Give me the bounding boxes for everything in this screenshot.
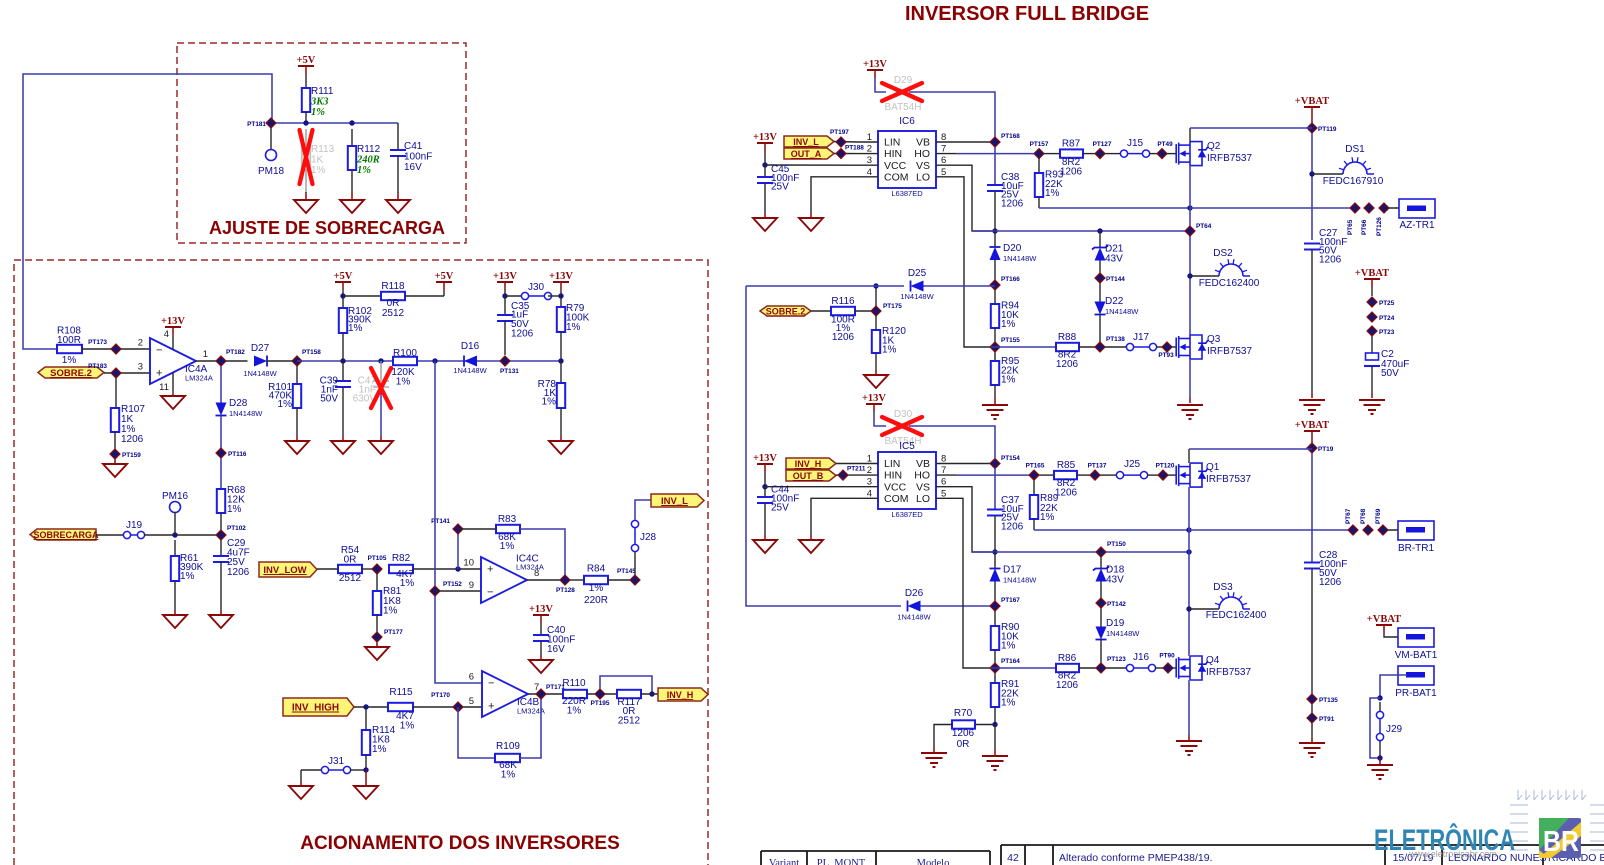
- svg-text:PT164: PT164: [1001, 658, 1020, 665]
- resistor R61: [174, 540, 176, 556]
- svg-text:R83: R83: [498, 514, 517, 525]
- svg-text:+13V: +13V: [549, 271, 573, 282]
- svg-text:D30: D30: [894, 409, 913, 420]
- test point PT152: [430, 586, 440, 596]
- junction dot J29 top: [1377, 695, 1382, 700]
- svg-text:R113: R113: [311, 144, 335, 155]
- wire HO to PT165: [956, 474, 1034, 476]
- svg-text:−: −: [156, 345, 162, 357]
- svg-text:R70: R70: [954, 708, 973, 719]
- svg-text:INV_H: INV_H: [667, 690, 694, 700]
- test point PT144: [1095, 273, 1105, 283]
- junction dot R79/R78: [558, 358, 563, 363]
- svg-text:1206: 1206: [832, 332, 855, 343]
- junction dot R112 node: [349, 120, 354, 125]
- svg-text:PT170: PT170: [431, 692, 450, 699]
- ground below R120: [864, 375, 888, 388]
- wire VB to PT154: [956, 463, 995, 465]
- test point PT154: [990, 459, 1000, 469]
- svg-text:D20: D20: [1003, 243, 1022, 254]
- wire LO down: [956, 498, 991, 668]
- wire +5V to R111: [305, 74, 307, 88]
- svg-text:R84: R84: [587, 564, 606, 575]
- connector BR-TR1: [1387, 529, 1408, 531]
- svg-text:1%: 1%: [372, 744, 387, 755]
- svg-text:R111: R111: [311, 86, 334, 97]
- svg-text:INV_L: INV_L: [793, 137, 819, 147]
- svg-text:50V: 50V: [320, 394, 338, 405]
- resistor R120: [875, 316, 877, 330]
- svg-text:PT137: PT137: [1088, 463, 1107, 470]
- wire flags to pins: [834, 141, 858, 144]
- svg-text:100nF: 100nF: [404, 152, 432, 163]
- ground below C40: [529, 660, 553, 673]
- svg-text:PT116: PT116: [228, 451, 247, 458]
- svg-text:1%: 1%: [278, 399, 293, 410]
- svg-text:PT175: PT175: [883, 303, 902, 310]
- svg-text:VCC: VCC: [884, 160, 907, 172]
- ground below R70 (earth): [933, 747, 935, 752]
- svg-text:6: 6: [469, 672, 474, 683]
- net flag INV_H (IC5 input): [786, 458, 836, 469]
- svg-text:R100: R100: [393, 348, 417, 359]
- svg-text:D25: D25: [908, 268, 927, 279]
- power +5V (R102/R118): [335, 281, 351, 283]
- transistor Q2 IRFB7537: [1176, 142, 1202, 166]
- test point PT65: [1350, 203, 1360, 213]
- svg-text:1%: 1%: [400, 721, 415, 732]
- svg-text:PT131: PT131: [500, 368, 519, 375]
- test point PT64: [1185, 226, 1195, 236]
- connector AZ-TR1: [1388, 207, 1408, 209]
- svg-text:42: 42: [1007, 852, 1019, 864]
- power +13V (C35): [497, 281, 513, 283]
- resistor R70: [975, 724, 995, 726]
- svg-text:25V: 25V: [771, 503, 789, 514]
- resistor R84: [570, 579, 584, 581]
- svg-text:L6387ED: L6387ED: [891, 510, 923, 519]
- svg-text:+: +: [487, 564, 493, 576]
- test point PT105: [372, 564, 382, 574]
- wire J19 to PT102: [144, 534, 221, 536]
- test point PT119: [1311, 115, 1313, 123]
- svg-text:PT157: PT157: [1030, 141, 1049, 148]
- svg-text:D16: D16: [461, 341, 480, 352]
- test point PT135: [1307, 694, 1317, 704]
- power +13V (C40): [533, 614, 549, 616]
- wire VB to PT168: [956, 141, 995, 143]
- svg-text:J31: J31: [328, 756, 345, 767]
- wire R108 to PT173: [82, 348, 150, 350]
- wire PR-BAT1 to J29: [1380, 675, 1407, 698]
- test point PT197: [836, 137, 846, 147]
- svg-text:1%: 1%: [396, 377, 411, 388]
- wire LO down: [956, 177, 991, 347]
- svg-text:1%: 1%: [567, 706, 582, 717]
- svg-text:+13V: +13V: [161, 316, 185, 327]
- svg-text:PT188: PT188: [845, 145, 864, 152]
- svg-text:LM324A: LM324A: [516, 563, 544, 572]
- svg-text:LO: LO: [916, 171, 930, 183]
- test point PT168: [990, 137, 1000, 147]
- junction dot PM16: [172, 532, 177, 537]
- svg-text:1%: 1%: [1045, 188, 1060, 199]
- junction dot VS/C38: [992, 228, 997, 233]
- junction dot J31: [363, 767, 368, 772]
- wire IC4A output: [196, 360, 248, 362]
- junction dot R70: [992, 722, 997, 727]
- svg-text:ACIONAMENTO DOS INVERSORES: ACIONAMENTO DOS INVERSORES: [300, 833, 620, 854]
- svg-text:PT120: PT120: [1156, 463, 1175, 470]
- svg-text:5: 5: [469, 696, 474, 707]
- svg-text:11: 11: [159, 382, 169, 393]
- svg-text:PT69: PT69: [1375, 508, 1382, 524]
- svg-text:FEDC167910: FEDC167910: [1323, 176, 1384, 187]
- svg-text:1N4148W: 1N4148W: [1003, 254, 1037, 263]
- svg-text:J16: J16: [1133, 652, 1150, 663]
- svg-text:+5V: +5V: [297, 55, 316, 66]
- svg-text:PL_MONT: PL_MONT: [817, 858, 866, 865]
- op-amp IC4C: [481, 557, 527, 603]
- red X over D29: [882, 83, 922, 101]
- svg-text:OUT_A: OUT_A: [791, 149, 822, 159]
- wire R113 to ground: [305, 192, 307, 200]
- ground below R114: [365, 770, 367, 786]
- test point PT159: [110, 449, 120, 459]
- svg-text:J15: J15: [1127, 138, 1144, 149]
- power +VBAT (PT19): [1304, 430, 1320, 432]
- svg-text:HIN: HIN: [884, 470, 902, 482]
- svg-text:1%: 1%: [357, 165, 371, 176]
- svg-text:IC6: IC6: [899, 116, 915, 127]
- svg-text:L6387ED: L6387ED: [891, 189, 923, 198]
- svg-text:IRFB7537: IRFB7537: [1206, 474, 1251, 485]
- resistor R108: [57, 345, 82, 353]
- svg-text:0R: 0R: [344, 555, 357, 566]
- svg-text:+13V: +13V: [862, 393, 886, 404]
- svg-text:+VBAT: +VBAT: [1295, 420, 1329, 431]
- svg-text:VB: VB: [916, 458, 930, 470]
- svg-text:AJUSTE DE SOBRECARGA: AJUSTE DE SOBRECARGA: [209, 218, 445, 238]
- ground below Q4 (earth): [1176, 741, 1202, 755]
- wire D29 to VB node: [909, 92, 995, 137]
- svg-text:HIN: HIN: [884, 148, 902, 160]
- ground IC6 COM: [811, 177, 858, 213]
- wire IC4C output: [527, 579, 561, 581]
- svg-text:1206: 1206: [121, 434, 144, 445]
- svg-text:PT93: PT93: [1158, 352, 1174, 359]
- svg-text:1%: 1%: [500, 541, 515, 552]
- svg-text:1K: 1K: [311, 155, 324, 166]
- test point PT102: [216, 530, 226, 540]
- svg-text:D27: D27: [251, 343, 270, 354]
- test point PT166: [990, 280, 1000, 290]
- test point PT128: [560, 575, 570, 585]
- ground IC5 COM: [811, 498, 858, 535]
- resistor R54: [338, 565, 362, 573]
- svg-text:Q2: Q2: [1207, 141, 1221, 152]
- svg-text:Modelo: Modelo: [917, 858, 950, 865]
- title block left table: [761, 851, 990, 865]
- svg-text:R82: R82: [392, 553, 411, 564]
- net flag INV_H: [658, 688, 708, 701]
- svg-text:INV_L: INV_L: [661, 496, 688, 507]
- svg-text:PM18: PM18: [258, 166, 285, 177]
- svg-text:HO: HO: [914, 470, 930, 482]
- red X over D30: [882, 417, 922, 435]
- net flag SOBRECARGA: [30, 529, 96, 540]
- capacitor C2 polarized: [1371, 336, 1373, 353]
- svg-text:1%: 1%: [501, 770, 516, 781]
- wire to VM-BAT1: [1384, 633, 1407, 637]
- wire R93 to AZ-TR1 row: [1039, 207, 1190, 209]
- test point PT155: [990, 342, 1000, 352]
- test point PT167: [990, 601, 1000, 611]
- resistor R93: [1038, 158, 1040, 173]
- wire to BR-TR1: [1189, 529, 1349, 531]
- svg-text:PT19: PT19: [1318, 446, 1334, 453]
- capacitor C45: [764, 165, 766, 177]
- resistor R91: [994, 673, 996, 683]
- test point PT69: [1378, 525, 1388, 535]
- net flag OUT_B (IC5 input): [786, 470, 836, 481]
- capacitor C38: [994, 147, 996, 185]
- wire VS down: [956, 487, 995, 552]
- test point PT141: [457, 534, 459, 569]
- feedback wire R109: [458, 707, 495, 758]
- wire +13V to VCC: [764, 472, 766, 487]
- resistor R83: [458, 528, 496, 530]
- svg-text:PT64: PT64: [1196, 223, 1212, 230]
- power +13V (R79): [553, 281, 569, 283]
- wire D27 to PT158: [267, 360, 297, 362]
- resistor R100: [393, 357, 417, 365]
- zener D21: [1099, 231, 1101, 248]
- svg-text:VB: VB: [916, 137, 930, 149]
- diode D27: [254, 356, 267, 367]
- svg-text:R116: R116: [831, 296, 855, 307]
- svg-text:+5V: +5V: [334, 271, 353, 282]
- power +5V (right of R118): [436, 281, 452, 283]
- resistor R81: [376, 574, 378, 591]
- svg-text:DS3: DS3: [1213, 582, 1233, 593]
- resistor R90: [994, 611, 996, 626]
- vertical +VBAT/C28: [1311, 453, 1313, 563]
- left loop wire SOBRE.2 to D26: [746, 286, 901, 606]
- diode D20: [994, 231, 996, 247]
- svg-text:PM16: PM16: [162, 491, 189, 502]
- test point PT182: [216, 356, 226, 366]
- net flag OUT_A (IC6 input): [784, 148, 834, 159]
- transistor Q3 IRFB7537: [1176, 335, 1202, 359]
- zener D18: [1100, 552, 1102, 569]
- resistor R82: [389, 565, 413, 573]
- resistor R112: [351, 129, 353, 146]
- svg-text:1N4148W: 1N4148W: [1003, 576, 1037, 585]
- resistor R68: [220, 458, 222, 489]
- junction dot D21 top: [1097, 228, 1102, 233]
- resistor R107: [115, 378, 117, 408]
- dashed box ACIONAMENTO DOS INVERSORES: [14, 260, 708, 865]
- resistor R110: [563, 690, 587, 698]
- ground below C45: [753, 218, 777, 231]
- ground below C47: [369, 441, 393, 454]
- svg-text:PT144: PT144: [1106, 276, 1125, 283]
- svg-text:PT173: PT173: [88, 339, 107, 346]
- test point PT23: [1367, 326, 1377, 336]
- test point PT175: [871, 306, 881, 316]
- svg-text:SOBRE.2: SOBRE.2: [766, 307, 806, 317]
- test point PT24: [1367, 312, 1377, 322]
- svg-text:R118: R118: [381, 281, 405, 292]
- wire VS down: [956, 165, 995, 231]
- resistor R101: [296, 366, 298, 384]
- capacitor C29: [220, 540, 222, 556]
- svg-text:1%: 1%: [348, 323, 363, 334]
- svg-text:10: 10: [463, 558, 474, 569]
- svg-text:PT119: PT119: [1318, 126, 1337, 133]
- svg-text:PT165: PT165: [1026, 463, 1045, 470]
- svg-text:2512: 2512: [618, 716, 641, 727]
- diode D19: [1100, 608, 1102, 627]
- svg-text:0R: 0R: [957, 739, 970, 750]
- VS node wire bottom: [972, 551, 1189, 553]
- test point PT91: [1311, 704, 1313, 713]
- svg-text:PT181: PT181: [247, 121, 266, 128]
- junction dot R114: [363, 704, 368, 709]
- wire D25 row: [746, 285, 904, 287]
- svg-text:PT49: PT49: [1157, 141, 1173, 148]
- svg-text:LIN: LIN: [884, 137, 900, 149]
- net flag SOBRE.2: [38, 367, 104, 378]
- svg-text:PT145: PT145: [617, 568, 636, 575]
- svg-text:1%: 1%: [311, 165, 326, 176]
- svg-text:LO: LO: [916, 493, 930, 505]
- svg-text:R85: R85: [1057, 460, 1076, 471]
- svg-text:R110: R110: [562, 678, 586, 689]
- gate driver IC6: [878, 131, 936, 188]
- svg-text:43V: 43V: [1106, 575, 1124, 586]
- op-amp IC4A: [150, 338, 196, 384]
- svg-text:1206: 1206: [1056, 359, 1079, 370]
- svg-text:INV_H: INV_H: [795, 459, 822, 469]
- svg-text:+VBAT: +VBAT: [1355, 268, 1389, 279]
- resistor R115: [388, 703, 413, 711]
- svg-text:+: +: [488, 701, 494, 713]
- svg-text:1: 1: [203, 349, 208, 360]
- test point PT145: [630, 575, 640, 585]
- wire D26 to PT167: [921, 605, 996, 607]
- svg-text:PT23: PT23: [1379, 329, 1395, 336]
- bypass wire J29: [1370, 698, 1380, 758]
- resistor R118: [343, 295, 381, 297]
- capacitor C27: [1304, 244, 1320, 250]
- svg-text:1206: 1206: [1056, 680, 1079, 691]
- svg-text:1%: 1%: [400, 578, 415, 589]
- test point PT126: [1379, 203, 1389, 213]
- VS node wire: [972, 230, 1190, 232]
- test point PT127: [1095, 149, 1105, 159]
- svg-text:PT177: PT177: [384, 629, 403, 636]
- svg-text:1N4148W: 1N4148W: [1105, 307, 1139, 316]
- svg-text:D19: D19: [1106, 618, 1125, 629]
- net flag INV_L (IC6 input): [784, 136, 834, 147]
- svg-text:+13V: +13V: [753, 132, 777, 143]
- test point PT120: [1158, 470, 1168, 480]
- power +VBAT (VM-BAT1): [1376, 624, 1392, 626]
- ground below C39: [331, 441, 355, 454]
- svg-text:PT142: PT142: [1107, 601, 1126, 608]
- resistor R102: [342, 296, 344, 308]
- svg-text:PT128: PT128: [556, 587, 575, 594]
- svg-text:3K3: 3K3: [310, 97, 329, 108]
- resistor R87: [1044, 153, 1060, 155]
- test point PT93: [1162, 342, 1172, 352]
- svg-text:PT25: PT25: [1379, 300, 1395, 307]
- svg-text:1%: 1%: [227, 504, 242, 515]
- wire +13V to VCC: [764, 151, 766, 165]
- svg-text:PT155: PT155: [1001, 337, 1020, 344]
- wire pin9: [435, 590, 481, 592]
- ground below Q3 (earth): [1177, 405, 1203, 419]
- jumper J28 and wire to INV_L: [634, 552, 636, 575]
- svg-text:J28: J28: [640, 532, 657, 543]
- diode D28 vertical: [220, 366, 222, 403]
- resistor R85: [1039, 474, 1054, 476]
- svg-text:PT154: PT154: [1001, 455, 1020, 462]
- svg-text:R86: R86: [1058, 653, 1077, 664]
- junction dot Q2 source: [1187, 205, 1192, 210]
- test point PT68: [1363, 525, 1373, 535]
- diode D22: [1099, 283, 1101, 302]
- test point PT165: [1029, 470, 1039, 480]
- svg-text:1%: 1%: [589, 583, 604, 594]
- IC6 pin stubs: [858, 141, 878, 143]
- test point PT195: [595, 689, 605, 699]
- net flag INV_HIGH: [283, 698, 354, 716]
- transistor Q4 IRFB7537: [1176, 656, 1202, 680]
- resistor R78: [560, 361, 562, 383]
- jumper J31: [301, 769, 329, 771]
- ground below R91 (earth): [994, 725, 996, 751]
- wire +13V to C35 node: [504, 290, 506, 296]
- LO node wire bottom: [991, 667, 1056, 669]
- test point PT170: [453, 702, 463, 712]
- junction dot DS2: [1187, 273, 1192, 278]
- ground below C44: [753, 540, 777, 553]
- power +13V (D29): [867, 69, 883, 71]
- svg-text:1206: 1206: [227, 567, 250, 578]
- junction dot DS1: [1309, 171, 1314, 176]
- svg-text:Alterado conforme PMEP438/19.: Alterado conforme PMEP438/19.: [1059, 852, 1213, 864]
- long vertical wire D16 node to IC4B: [435, 361, 482, 683]
- wire INV_LOW to R54: [317, 568, 338, 570]
- svg-text:25V: 25V: [771, 182, 789, 193]
- logo circuit traces decoration: [1510, 790, 1604, 850]
- svg-text:220R: 220R: [584, 595, 608, 606]
- test point PT157: [1034, 149, 1044, 159]
- ground below R113: [294, 200, 318, 213]
- wire INV_HIGH to R115: [354, 706, 388, 708]
- resistor R88: [1056, 343, 1079, 351]
- capacitor C39: [342, 361, 344, 381]
- resistor R113 (not fitted, ghost): [305, 129, 307, 146]
- test point PT19: [1311, 439, 1313, 443]
- jumper J15: [1105, 153, 1120, 155]
- svg-text:2512: 2512: [382, 308, 405, 319]
- svg-text:PT211: PT211: [847, 466, 866, 473]
- junction dot DS3: [1186, 606, 1191, 611]
